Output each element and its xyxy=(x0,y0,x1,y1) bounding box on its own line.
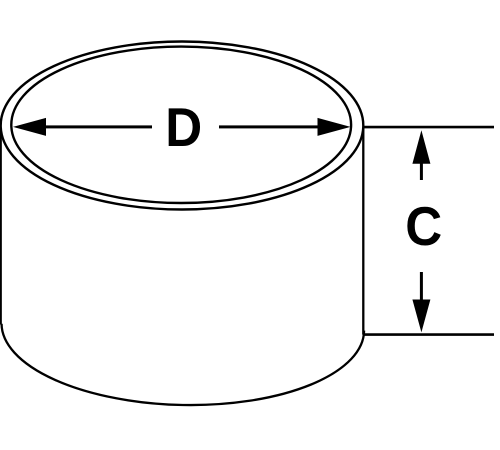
cylinder body right side xyxy=(362,126,364,335)
cylinder bottom arc xyxy=(2,324,365,405)
dimension D arrow right shaft xyxy=(219,125,319,128)
svg-text:C: C xyxy=(405,197,442,258)
dimension D arrow left head xyxy=(13,118,46,136)
cylinder top inner ellipse (rim) xyxy=(11,47,351,203)
cylinder top outer ellipse xyxy=(1,42,364,210)
extension line upper (top of C) xyxy=(363,126,494,129)
cylinder body left side xyxy=(0,126,2,325)
dimension C upper arrow shaft xyxy=(420,163,423,180)
dimension D arrow right head xyxy=(318,118,351,136)
extension line lower (bottom of C) xyxy=(363,333,494,336)
dimension C upper arrow head (pointing up) xyxy=(412,130,430,164)
dimension D arrow left shaft xyxy=(45,125,152,128)
svg-text:D: D xyxy=(165,98,202,159)
dimension C lower arrow shaft xyxy=(420,272,423,301)
dimension C lower arrow head (pointing down) xyxy=(412,300,430,333)
